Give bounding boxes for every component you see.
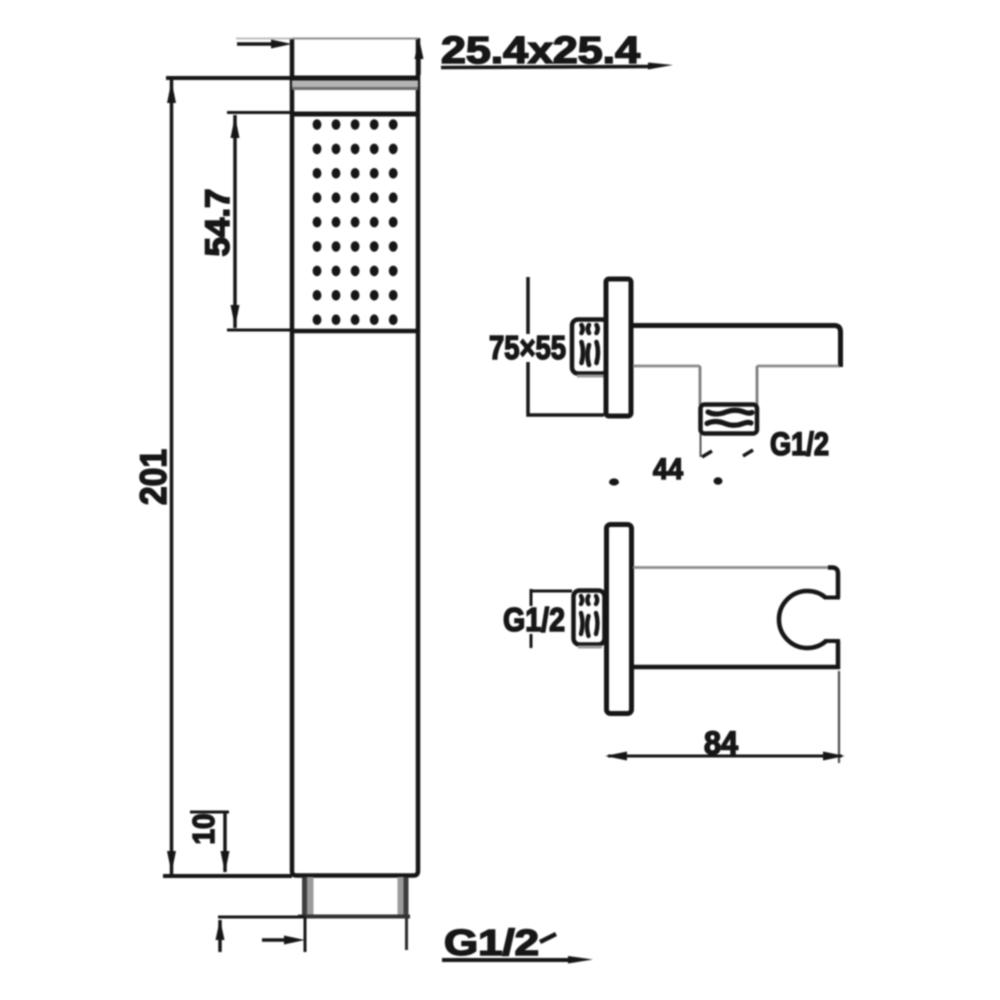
hand shower chrome band bottom line	[292, 87, 418, 90]
dimension 54.7 line with arrows	[231, 115, 240, 328]
elbow outlet neck left line	[699, 366, 702, 405]
elbow arm bottom line (right of neck)	[757, 365, 839, 368]
bottom inlet connector left edge (dark)	[302, 877, 307, 916]
dimension 10 line with arrow	[221, 812, 230, 873]
elbow 44 dimension dot right	[714, 477, 723, 485]
svg-text:54.7: 54.7	[199, 189, 237, 257]
holder slot top edge	[824, 596, 840, 600]
dimension 25.4x25.4 leader arrow (right, vertical)	[415, 38, 424, 75]
elbow horizontal arm outline	[633, 326, 841, 368]
dimension 25.4x25.4 leader arrow (left, horizontal)	[237, 40, 292, 49]
holder C cradle arc	[779, 591, 826, 648]
holder G1/2 dimension centerline (dashed)	[530, 589, 533, 648]
svg-text:10: 10	[186, 814, 221, 845]
elbow 44 dimension extension line	[700, 434, 702, 457]
svg-text:G1/2: G1/2	[503, 601, 565, 638]
elbow dimension 75x55 bracket	[528, 277, 604, 415]
dimension 201 line with arrows	[167, 80, 176, 874]
bottom thread dimension horizontal arrow	[262, 936, 305, 945]
svg-text:75×55: 75×55	[489, 329, 566, 366]
bottom inlet connector right edge (grey)	[398, 877, 404, 915]
svg-text:G1/2: G1/2	[444, 922, 539, 963]
dimension 54.7 extension line (bottom)	[227, 329, 292, 332]
bottom G1/2 tick mark	[540, 934, 556, 942]
bottom connector right extension line	[405, 918, 408, 950]
spray plate bottom line	[290, 329, 418, 334]
holder body top line	[633, 566, 833, 569]
holder right edge lower segment	[836, 641, 841, 669]
elbow arm bottom line (left of neck)	[633, 365, 700, 368]
holder slot bottom edge	[824, 639, 840, 643]
dimension 201 extension line (top)	[166, 76, 292, 80]
elbow dimension text 75x55	[487, 329, 567, 366]
svg-text:84: 84	[704, 725, 738, 761]
elbow wall-side threaded connector	[572, 320, 608, 377]
dimension 201 extension line (bottom)	[163, 874, 292, 878]
spray plate top line	[290, 112, 418, 117]
holder body top-right corner	[828, 568, 838, 598]
dimension 54.7 extension line (top)	[227, 111, 292, 114]
elbow 44 dimension dot left	[609, 478, 619, 485]
elbow outlet threaded connector G1/2	[701, 405, 758, 434]
bottom inlet connector right edge (dark)	[404, 877, 409, 916]
holder 84 dimension right extension line	[838, 671, 840, 763]
dimension 25.4x25.4 underline with arrow	[441, 63, 673, 70]
holder body bottom line	[630, 665, 840, 670]
hand shower top cap line	[292, 38, 418, 40]
holder flange plate	[607, 525, 632, 714]
bottom inlet connector left edge (grey)	[307, 877, 314, 915]
svg-text:44: 44	[653, 453, 683, 486]
holder 84 dimension line with arrows	[605, 752, 845, 761]
bottom thread dimension left riser with up arrow	[216, 919, 225, 952]
holder G1/2 dimension bracket top line	[531, 590, 572, 593]
hand shower chrome band top line	[290, 76, 420, 81]
elbow 44 dimension tick left	[702, 451, 712, 457]
top cap extension line (left of head)	[236, 38, 292, 40]
elbow outlet neck right line	[756, 366, 759, 405]
svg-text:G1/2: G1/2	[770, 426, 829, 462]
bottom G1/2 underline with arrow	[442, 956, 593, 964]
dimension 10 tick line	[190, 811, 229, 814]
bottom thread dimension right riser	[304, 917, 307, 952]
elbow flange plate	[606, 279, 631, 416]
holder wall-side threaded connector	[574, 591, 605, 648]
spray nozzle dots	[313, 119, 398, 325]
elbow 44 dimension tick right	[743, 450, 753, 456]
bottom inlet connector bottom line	[298, 915, 410, 919]
svg-text:201: 201	[133, 449, 174, 505]
hand shower body outline	[292, 38, 418, 876]
bottom thread dimension shelf line	[218, 916, 305, 919]
hand shower chrome band grey fill	[292, 81, 418, 88]
